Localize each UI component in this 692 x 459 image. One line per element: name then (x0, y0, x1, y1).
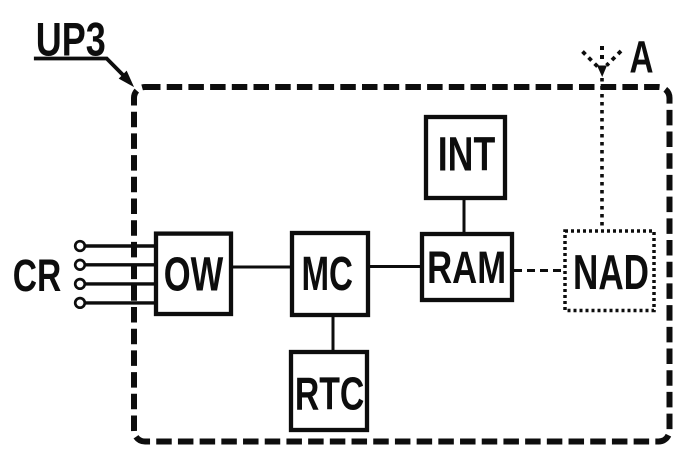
svg-text:NAD: NAD (573, 246, 649, 300)
svg-text:RTC: RTC (295, 367, 365, 419)
svg-text:CR: CR (13, 250, 62, 301)
svg-text:A: A (630, 32, 654, 83)
svg-text:INT: INT (438, 128, 496, 182)
svg-text:RAM: RAM (427, 242, 506, 293)
svg-text:MC: MC (301, 248, 353, 301)
svg-text:OW: OW (164, 248, 224, 302)
